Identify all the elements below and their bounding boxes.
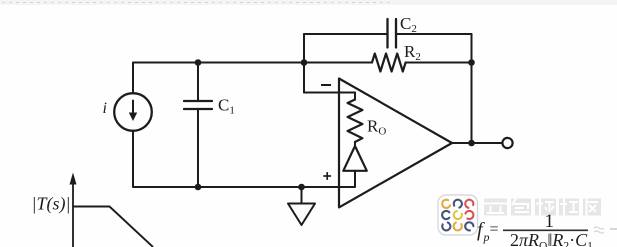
formula fraction bar — [503, 229, 588, 231]
svg-text:i: i — [103, 100, 107, 117]
svg-text:C1: C1 — [218, 96, 235, 117]
wire: RO to source lead — [354, 142, 356, 146]
ground stub — [301, 187, 303, 203]
watermark text 面包板社区 — [484, 199, 601, 216]
graph axis |T(s)| — [72, 180, 74, 247]
op-amp plus sign — [323, 172, 331, 180]
wire: current source top lead — [132, 63, 134, 94]
svg-text:RO: RO — [367, 117, 386, 138]
wire: bottom ground rail — [133, 186, 355, 188]
wire: R2 right lead — [406, 62, 472, 64]
resistor R2 — [372, 54, 406, 72]
wire: internal branch top lead — [354, 93, 356, 100]
capacitor C1 plates — [184, 101, 212, 109]
svg-text:1: 1 — [545, 211, 555, 232]
node: output junction — [468, 140, 475, 147]
controlled source arrow (op-amp output stage) — [343, 146, 367, 171]
faint dash right edge — [610, 228, 617, 230]
svg-text:=: = — [490, 221, 499, 238]
resistor RO — [348, 100, 363, 143]
top scan strip — [0, 0, 617, 5]
capacitor C1 bottom lead — [197, 109, 199, 187]
node: R2 right junction — [468, 59, 475, 66]
faint approx mark — [594, 227, 604, 233]
current source arrow — [129, 101, 137, 122]
op-amp minus sign — [321, 84, 331, 86]
svg-text:R2: R2 — [404, 42, 421, 63]
node: C1 bottom junction — [195, 184, 202, 191]
wire: C2 right lead — [396, 33, 472, 35]
top dotted scan line — [2, 2, 390, 4]
svg-text:C2: C2 — [400, 14, 417, 35]
graph axis arrowhead — [70, 173, 77, 185]
wire: feedback left vertical — [303, 34, 305, 93]
watermark logo box — [438, 195, 478, 235]
wire: top node wire from current source to R2 left lead — [133, 62, 372, 64]
capacitor C1 top lead — [197, 63, 199, 102]
wire: feedback right vertical to output — [471, 34, 473, 143]
ground — [288, 204, 315, 226]
wire: current source bottom lead — [132, 131, 134, 187]
current source i — [114, 93, 152, 131]
wire: source bottom lead — [354, 171, 356, 187]
wire: C2 left lead — [304, 33, 388, 35]
node: C1 top junction — [195, 59, 202, 66]
output terminal — [502, 138, 512, 148]
node: inverting feedback junction — [301, 59, 308, 66]
svg-text:2πRO‖R2·C1: 2πRO‖R2·C1 — [510, 230, 593, 247]
wire: output — [452, 142, 503, 144]
capacitor C2 plates — [388, 19, 397, 48]
svg-text:p: p — [483, 230, 490, 244]
wire: inverting input wire — [304, 92, 355, 94]
graph curve — [73, 207, 153, 247]
svg-text:|T(s)|: |T(s)| — [32, 194, 71, 215]
watermark logo hooks — [442, 200, 473, 231]
node: ground junction — [298, 184, 305, 191]
op-amp — [339, 79, 452, 208]
